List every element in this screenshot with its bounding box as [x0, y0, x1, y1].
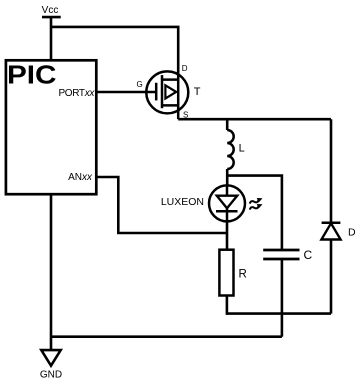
svg-text:D: D [182, 64, 188, 73]
ground [40, 350, 62, 380]
wire diode to bottom node [330, 240, 333, 314]
transistor T (N-MOSFET) [137, 64, 201, 119]
svg-text:Vcc: Vcc [42, 5, 59, 16]
wire PIC to ground [50, 194, 53, 350]
wire ANxx to node [95, 177, 227, 233]
diode D [321, 223, 356, 240]
svg-text:ANxx: ANxx [68, 172, 93, 183]
svg-text:LUXEON: LUXEON [161, 196, 204, 208]
wire source to right rail [178, 118, 331, 121]
power Vcc [42, 5, 61, 17]
svg-text:GND: GND [40, 369, 62, 380]
svg-text:PIC: PIC [7, 60, 57, 90]
svg-text:L: L [239, 142, 245, 154]
wire resistor to bottom node [227, 296, 331, 314]
svg-text:D: D [348, 226, 356, 238]
svg-text:PORTxx: PORTxx [58, 88, 95, 99]
wire LED to resistor node [226, 221, 229, 250]
LED LUXEON [161, 185, 264, 221]
svg-text:C: C [304, 248, 313, 262]
IC PIC [6, 60, 96, 195]
wire right rail to diode [330, 119, 333, 223]
wire inductor to LED [226, 169, 229, 187]
wire source to inductor [226, 119, 229, 130]
svg-text:R: R [239, 269, 247, 281]
wire bottom node down [281, 314, 284, 337]
wire Vcc to PIC top [50, 17, 53, 60]
resistor R [219, 250, 246, 296]
wire bottom to ground rail [51, 335, 282, 338]
inductor L [227, 130, 245, 169]
wire PORTxx to gate [95, 91, 156, 94]
wire node to capacitor branch [227, 176, 282, 250]
svg-text:G: G [137, 80, 143, 89]
svg-text:T: T [194, 86, 201, 98]
wire capacitor to bottom node [281, 259, 284, 314]
capacitor C [263, 248, 312, 262]
wire Vcc to drain [51, 27, 178, 72]
